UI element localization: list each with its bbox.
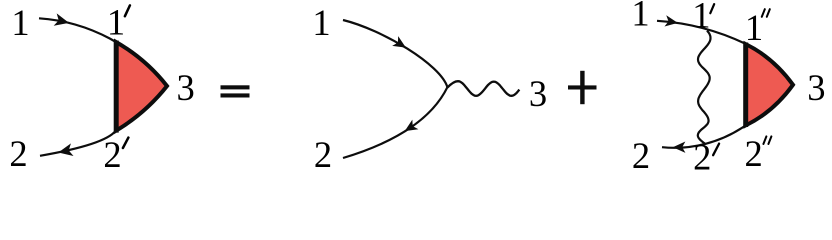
wire fermion line vertex to 2 <box>343 87 447 158</box>
svg-text:1: 1 <box>107 2 125 43</box>
svg-text:1: 1 <box>11 2 29 43</box>
triangle 3 left edge (thick) <box>743 43 748 128</box>
arrow on line 2 <box>402 120 419 136</box>
svg-text:1: 1 <box>631 0 649 34</box>
vertex blob (red triangle) <box>746 44 794 126</box>
arrow on line 2 <box>57 143 73 158</box>
wire fermion line 1 through 1' to 1'' <box>657 21 746 44</box>
wire fermion line 1 to 1' <box>39 18 166 86</box>
wire fermion line 2'' through 2' to 2 <box>662 126 746 148</box>
svg-text:2: 2 <box>314 134 332 175</box>
arrow on line 1 <box>664 15 678 28</box>
svg-text:2: 2 <box>103 134 121 175</box>
wire fermion line 2' to 2 <box>40 131 116 156</box>
svg-text:2: 2 <box>744 133 762 174</box>
svg-text:3: 3 <box>176 67 194 108</box>
svg-text:1: 1 <box>692 0 710 36</box>
vertex blob (red triangle) <box>116 42 167 131</box>
arrow on line 1 <box>392 36 409 52</box>
photon wavy line to 3 <box>447 81 519 96</box>
arrow on line 2 <box>673 141 686 153</box>
triangle left edge (thick) <box>114 41 119 133</box>
photon wavy line 1' to 2' <box>698 31 711 145</box>
svg-text:3: 3 <box>529 73 547 114</box>
svg-text:2: 2 <box>9 133 27 174</box>
svg-text:2: 2 <box>632 135 650 176</box>
svg-text:1: 1 <box>312 2 330 43</box>
equals sign <box>221 85 250 89</box>
plus sign <box>568 85 597 89</box>
wire fermion line 1 to vertex <box>343 20 447 87</box>
arrow on line 1 <box>54 13 71 29</box>
svg-text:3: 3 <box>807 67 825 108</box>
svg-text:2: 2 <box>693 137 711 178</box>
svg-text:1: 1 <box>745 7 763 48</box>
